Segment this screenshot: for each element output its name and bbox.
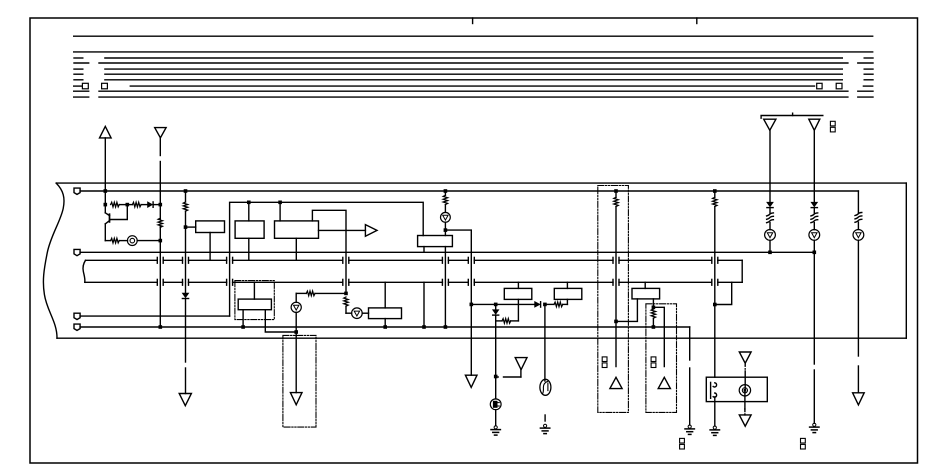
bulb L6 [765,230,776,241]
wire V1 x=160 down [159,205,161,220]
wire W8 y=304.4 [471,303,534,305]
connector row line Y3 (segments with ticks) [85,281,158,283]
diode D6 chain x=814 [811,202,817,206]
wire W4 end drop to ground [689,327,691,360]
box M2 bottom stub to Y1 [423,247,425,253]
ground circle G1 [495,377,497,399]
resistor R16 [855,213,862,216]
diode D1 [148,202,153,207]
junction dot V5/W8 [470,303,474,307]
box M5 [632,288,660,299]
bus line 6 [74,73,83,75]
wire V3 lower to bulb L2 [345,306,347,313]
diode D2 on V2 [182,293,188,297]
resistor R2 [132,202,141,207]
border tick 2 [696,18,698,24]
wire V2 x=185.5 down [185,191,187,202]
box U1 [196,221,225,233]
connector arrow A2 down-triangle [155,128,166,138]
box M7 pin to W4 [242,310,244,327]
connector arrow A4 down-triangle [809,119,820,130]
bulb L3 drop [295,293,297,302]
resistor R14 [767,213,774,216]
connector square pair S2 [602,357,607,362]
switch SW1 in box M6 [710,382,712,398]
resistor R11 chain x=616 [615,191,617,197]
connector arrow A9 up-triangle [610,377,622,388]
wire W2 y=202 to box B [230,202,424,316]
inner break curve [83,260,85,282]
box U2 [235,221,264,238]
box M3 [504,288,532,299]
connector arrow A1 up-triangle [100,126,112,137]
junction dot V4/W6 [294,330,298,334]
bus line 9 [74,90,89,92]
junction dots on W2 [247,201,251,205]
dash-dot unit H3 [235,281,274,320]
box M4 bottom pin [566,299,568,304]
ground symbol GND3 [688,425,691,428]
connector arrow A10 up-triangle [658,377,670,388]
relay drop x=714.8 [714,191,716,197]
box M7 [238,299,271,310]
wire W3 y=316 [80,315,230,317]
wire below M6 to arrow A12 [744,390,746,409]
junction dot W8 x=495.7 [494,303,498,307]
box M7 top stub [253,282,255,299]
transistor Q1 [104,205,106,213]
connector arrow A12 down-triangle [739,415,751,426]
resistor R8 chain x=445 [444,191,446,195]
wire from arrow A2 down (dashed break) [159,138,161,156]
diode D5 chain x=770 [767,202,773,206]
pin tag P3 [74,313,80,319]
box M1 top stub [384,282,386,308]
wire W1 y=191 [80,190,858,192]
ground symbol GND2 with dash [544,415,546,421]
connector arrow A7 down-triangle [465,375,477,387]
dash-dot unit H4 [283,335,316,427]
bus line 5 [74,68,83,70]
border tick 1 [472,18,474,24]
box M4 [554,288,582,299]
bulb L4 [441,212,451,222]
connector row line Y1 [80,251,814,253]
Y2-Y3 end loop [741,260,743,282]
wire from arrow A3 [769,130,771,202]
junction dot V2/box1 wire [184,225,188,229]
wire W10 to box M5 [616,299,637,322]
bus line 2 [74,51,873,53]
wire from arrow A1 down [104,138,106,191]
connector arrow A8 down-triangle [515,358,527,370]
wire from arrow A4 [813,130,815,202]
stub Y3 to W4 [423,282,425,327]
bulb L3 [291,302,301,312]
bus line 10 [74,96,89,98]
bus line 3 [74,57,83,59]
junction dots on W1 [104,189,108,193]
connector arrow A5 down-triangle [179,394,191,406]
junction dot V3 top of R6 [344,292,348,296]
junction dot V6 bottom [494,375,498,379]
buffer triangle T1 [365,225,377,237]
box M6 relay [706,377,767,401]
bus line 4 [74,62,89,64]
diode D3 on W8 [535,302,540,307]
pin tag P2 [74,249,80,255]
bus line 7 [74,79,83,81]
connector square pair S5 [801,438,806,443]
wire W5 y=293 with resistor R7 [296,292,306,294]
step wire from Y3 to V9 [715,282,732,304]
box M2 [418,236,453,247]
ground symbol GND4 [714,402,716,426]
bulb L7 [809,230,820,241]
resistor R9 on W8 [545,303,554,305]
connector arrow A3 down-triangle [764,119,776,130]
diode D4 down on V6 [495,304,497,309]
bus line 1 [74,35,873,37]
connector square pair S1 [830,121,835,126]
pin tag P4 [74,324,80,330]
bulb L1 [127,236,137,246]
connector arrow A11 down-triangle above M6 [739,352,751,363]
harness left break curve [43,183,64,338]
right header bar [761,116,823,119]
box M7 pin to W6 [265,310,296,332]
ground symbol GND5 [813,423,816,426]
connector arrow A6 down-triangle [290,393,302,405]
tall dash-dot unit H1 [598,186,629,413]
bus line 8 with connector squares [74,85,82,87]
connector square pair S3 [651,357,656,362]
harness right edge [905,183,907,338]
resistor R12 x=653 [652,299,654,309]
resistor R5 on V2 [183,202,187,211]
V5 continues from box M2 bottom [444,247,446,327]
bulb L5 oval chain x=545 [544,304,546,381]
bulb L2 [352,308,363,319]
harness top line [56,182,906,184]
connector row line Y2 (segments with ticks) [86,259,158,261]
box M1 (between rows) [369,308,402,319]
resistor R13 [713,197,717,206]
box M1 bottom stub [384,319,386,327]
box U3 [275,221,319,238]
ground symbol GND1 [495,410,497,426]
small dash-dot unit H2 [646,304,677,413]
connector square pair S4 [680,438,685,443]
coil CL1 in box M6 [739,385,750,396]
resistor R15 [811,213,818,216]
resistor R10 wire to box M3 pin [496,320,502,322]
header bump [792,113,794,115]
pin tag P1 [74,188,80,194]
junction dots on W4 [159,325,163,329]
harness bottom line [57,337,906,339]
junction dots R1/R2 chain [104,203,108,207]
wire W7 to V5 [445,230,471,375]
wire W4 y=327 [80,326,690,328]
wire W11 to V8 [653,307,664,366]
resistor R3 [111,238,120,243]
wire U3 to buffer [319,229,366,231]
resistor R4 on V1 [158,218,162,227]
connector arrow A13 down-triangle [853,393,865,405]
wire W9 triangle link [496,376,499,378]
bulb L8 [853,230,864,241]
junction dot V7/W10 [614,320,618,324]
resistor R6 on V3 [344,297,348,306]
wire x=814 to ground [813,252,815,364]
resistor R1 [104,191,106,205]
lamp chain x=858 [857,191,859,213]
wire over U3 to vertical V3 [312,210,346,293]
